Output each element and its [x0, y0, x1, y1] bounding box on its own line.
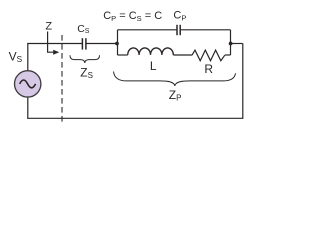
wire tank top branch left — [118, 29, 178, 31]
wire top mid horizontal — [86, 43, 118, 45]
wire tank right edge — [230, 30, 232, 55]
resistor R — [192, 50, 225, 61]
capacitor CP — [177, 25, 180, 35]
inductor L — [128, 48, 174, 55]
impedance Z arrow — [48, 32, 60, 55]
svg-text:CP = CS = C: CP = CS = C — [103, 10, 162, 23]
brace ZS — [70, 55, 100, 63]
svg-text:Z: Z — [45, 20, 52, 32]
svg-text:L: L — [150, 59, 157, 73]
wire tank bottom branch left lead — [118, 54, 128, 56]
wire bottom horizontal — [27, 117, 243, 119]
wire source vertical lower — [27, 97, 29, 118]
wire output vertical right — [242, 44, 244, 119]
wire tank left edge — [117, 30, 119, 55]
svg-text:VS: VS — [9, 49, 23, 64]
wire source vertical upper — [27, 44, 29, 71]
wire node to output — [231, 43, 243, 45]
svg-text:CS: CS — [77, 23, 90, 35]
capacitor CS — [82, 38, 86, 49]
node left junction dot — [115, 42, 119, 46]
voltage source VS — [15, 71, 41, 97]
node right junction dot — [229, 42, 233, 46]
wire tank top branch right — [180, 29, 230, 31]
svg-text:CP: CP — [173, 10, 186, 23]
svg-text:R: R — [204, 62, 213, 76]
wire between L and R — [173, 54, 192, 56]
svg-text:ZP: ZP — [169, 88, 182, 102]
svg-text:ZS: ZS — [80, 66, 93, 80]
wire top-left horizontal — [27, 43, 82, 45]
reference plane dashed line — [61, 35, 63, 124]
brace ZP — [114, 72, 236, 87]
wire R to right edge — [225, 54, 231, 56]
